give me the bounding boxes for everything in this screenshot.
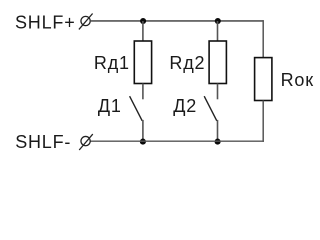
junction top node 2 [215, 18, 221, 24]
junction bottom node 2 [215, 139, 221, 145]
svg-text:Rд1: Rд1 [94, 53, 130, 73]
wire stub to Rд1 [142, 21, 144, 41]
switch Д2 blade [204, 96, 217, 121]
svg-text:Rок: Rок [281, 70, 314, 90]
junction bottom node 1 [140, 139, 146, 145]
svg-text:Д1: Д1 [98, 96, 122, 116]
wire stub below Rд2 [217, 84, 219, 100]
svg-text:Д2: Д2 [173, 96, 197, 116]
wire top rail [90, 20, 263, 22]
resistor Rд2 [209, 41, 226, 84]
resistor Rок [255, 58, 272, 101]
wire below Д1 [142, 120, 144, 142]
svg-text:Rд2: Rд2 [169, 53, 205, 73]
svg-text:SHLF-: SHLF- [15, 132, 71, 152]
switch Д1 blade [130, 96, 143, 121]
wire right branch bottom [262, 101, 264, 142]
svg-text:SHLF+: SHLF+ [15, 13, 76, 33]
junction top node 1 [140, 18, 146, 24]
resistor Rд1 [134, 41, 151, 84]
wire bottom rail [90, 140, 264, 142]
wire right branch top [262, 20, 264, 58]
wire stub to Rд2 [217, 21, 219, 41]
wire stub below Rд1 [142, 84, 144, 100]
terminal SHLF+ [79, 14, 93, 30]
terminal SHLF- [79, 134, 93, 150]
wire below Д2 [217, 120, 219, 142]
